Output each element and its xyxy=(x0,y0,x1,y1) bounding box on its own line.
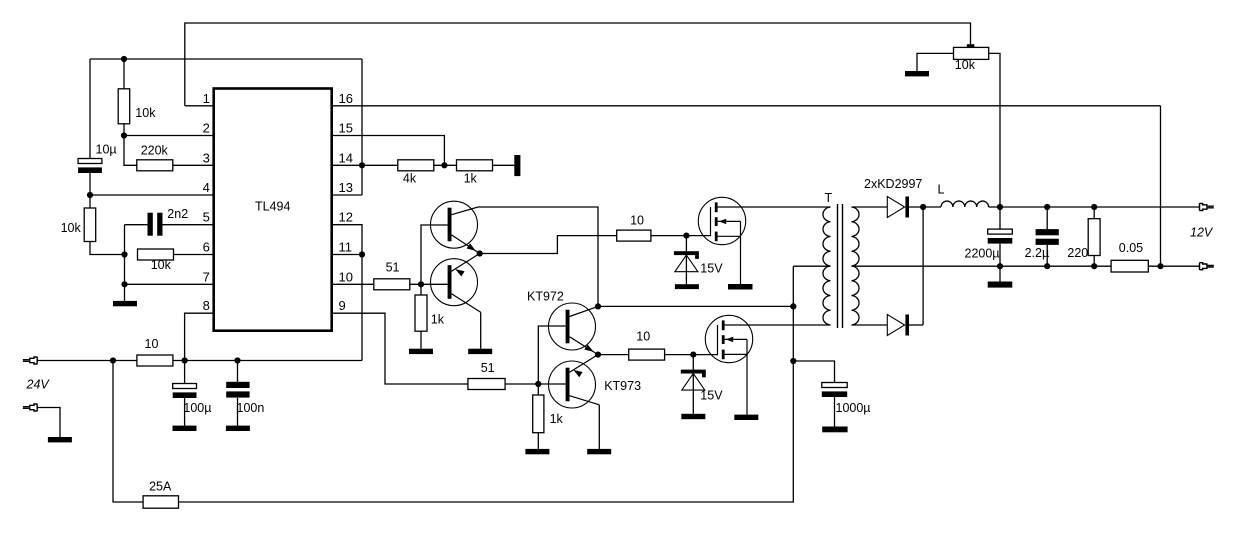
junction dot R15/feedback xyxy=(1157,263,1163,269)
wire R7 to terminator xyxy=(493,164,515,166)
ground C6 xyxy=(988,282,1013,288)
wire 24V rail xyxy=(37,360,137,362)
svg-text:2.2µ: 2.2µ xyxy=(1025,246,1050,260)
wire C5 branch xyxy=(793,361,834,383)
ground R11 xyxy=(525,449,549,454)
wire M2 drain to primary bottom xyxy=(725,324,831,326)
svg-text:1k: 1k xyxy=(464,172,478,186)
junction dot 24V/fuse branch xyxy=(110,357,116,363)
wire node A to R9 xyxy=(420,284,422,295)
inductor L xyxy=(941,201,989,207)
svg-text:0.05: 0.05 xyxy=(1119,241,1143,255)
ground M2 source xyxy=(734,415,758,420)
svg-text:12: 12 xyxy=(339,210,353,225)
wire pin14 xyxy=(332,164,398,166)
wire left branch down to C1 xyxy=(89,59,91,159)
svg-text:10: 10 xyxy=(145,337,159,351)
svg-text:15V: 15V xyxy=(700,389,723,403)
svg-text:14: 14 xyxy=(339,150,353,165)
svg-text:25A: 25A xyxy=(149,480,172,494)
svg-text:KT972: KT972 xyxy=(527,290,564,304)
wire pin4 node to R3 xyxy=(89,195,91,208)
output terminal 12V plus xyxy=(1200,203,1214,210)
junction dot Q3/Q4 emitters xyxy=(595,352,601,358)
junction dot tap rail / drivers xyxy=(790,303,796,309)
wire R16 right down to +12V rail xyxy=(989,53,1000,207)
wire M1 drain to primary top xyxy=(718,206,831,208)
wire pin16 feedback xyxy=(332,105,1161,107)
ground R16 xyxy=(905,71,929,76)
resistor R2 220k xyxy=(137,160,173,171)
junction dot pin4 node xyxy=(87,192,93,198)
wire L to +12V node xyxy=(989,206,1000,208)
junction dot node E pin6 xyxy=(121,251,127,257)
wire C3 bottom xyxy=(184,398,186,426)
ground 24V minus xyxy=(48,437,72,442)
wire R5 to pin12 branch xyxy=(173,360,362,362)
transistor Q2 PNP driver xyxy=(431,254,481,313)
svg-text:10k: 10k xyxy=(955,58,976,72)
wire R8 to node A / Q2 base xyxy=(409,283,447,285)
svg-text:10: 10 xyxy=(339,269,353,284)
resistor R4 10k xyxy=(138,249,174,260)
ground Z2 xyxy=(681,414,705,419)
svg-text:T: T xyxy=(825,191,833,205)
wire C5 bottom xyxy=(834,397,836,427)
wire R13 to gate node xyxy=(665,354,694,356)
wire R1 top xyxy=(123,59,125,89)
resistor R7 1k xyxy=(457,160,493,171)
resistor R3 10k xyxy=(84,208,96,242)
capacitor C7 2.2u xyxy=(1036,229,1059,245)
ground M1 source xyxy=(728,284,753,290)
wire node E to C2 xyxy=(125,224,148,226)
wire pin1 up and top feedback to potentiometer wiper xyxy=(185,23,971,106)
svg-text:10: 10 xyxy=(630,213,644,227)
resistor R11 1k xyxy=(533,395,544,433)
junction dot M2 gate node xyxy=(690,352,696,358)
ground R9 xyxy=(409,349,433,354)
junction dot 0V/C6 xyxy=(997,263,1003,269)
wire cathode bus vertical xyxy=(922,207,924,325)
wire C7 bottom xyxy=(1046,245,1048,266)
svg-text:3: 3 xyxy=(203,150,210,165)
resistor R5 10 xyxy=(137,355,173,366)
resistor R13 10 xyxy=(629,349,665,360)
wire R10 to node B / Q4 base xyxy=(505,383,565,385)
resistor R8 51 xyxy=(374,279,410,290)
wire upper bus y59 xyxy=(90,58,362,60)
junction dot D1/D2 cathodes xyxy=(920,204,926,210)
svg-text:2200µ: 2200µ xyxy=(965,247,1000,261)
svg-text:4: 4 xyxy=(203,180,210,195)
wire D1 to L node xyxy=(909,206,941,208)
svg-text:12V: 12V xyxy=(1190,226,1214,240)
wire emitters to R12 xyxy=(480,236,617,254)
transformer T core xyxy=(838,204,843,328)
wire pin7 xyxy=(125,283,214,285)
zener diode Z1 15V xyxy=(674,251,699,272)
ground Z1 xyxy=(675,284,699,289)
svg-text:5: 5 xyxy=(203,210,210,225)
junction dot pin2 node xyxy=(121,132,127,138)
svg-text:220: 220 xyxy=(1067,246,1088,260)
diode D2 KD2997 xyxy=(887,315,909,336)
junction dot node B xyxy=(535,381,541,387)
wire pin11 xyxy=(332,254,362,256)
capacitor C1 10u xyxy=(78,159,102,174)
wire C1 to pin4 node xyxy=(89,173,91,195)
wire secondary bottom to D2 xyxy=(852,324,888,326)
wire 0V rail from secondary tap xyxy=(852,265,1112,267)
svg-text:9: 9 xyxy=(339,298,346,313)
ground Q2 xyxy=(468,349,492,354)
ground Q4 xyxy=(587,449,611,454)
wire pin2 node down to R2 xyxy=(124,136,137,166)
resistor R15 0.05 xyxy=(1111,260,1148,272)
wire R12 to gate node xyxy=(651,235,687,237)
svg-text:1: 1 xyxy=(203,91,210,106)
wire R3 bottom to node E xyxy=(90,242,125,255)
junction dot Q3 collector node xyxy=(595,303,601,309)
wire R2 to pin3 xyxy=(173,164,214,166)
svg-text:10k: 10k xyxy=(61,221,82,235)
resistor R9 1k xyxy=(415,295,427,331)
svg-text:10k: 10k xyxy=(135,106,156,120)
wire node A to Q1 base xyxy=(421,225,448,284)
output terminal 12V minus xyxy=(1200,263,1214,270)
svg-text:11: 11 xyxy=(339,240,353,255)
capacitor C2 2n2 xyxy=(148,213,163,236)
svg-text:2n2: 2n2 xyxy=(167,207,188,221)
wire R14 bottom xyxy=(1093,256,1095,267)
wire Q3 collector node to transformer tap rail xyxy=(598,305,793,307)
wire Q4 collector to ground xyxy=(598,405,600,449)
ground C4 xyxy=(226,426,250,431)
svg-text:7: 7 xyxy=(203,269,210,284)
junction dot pin7 node xyxy=(121,281,127,287)
capacitor C5 1000u xyxy=(822,383,847,398)
wire R16 left to ground xyxy=(917,53,954,71)
fuse F1 25A xyxy=(143,496,178,508)
svg-text:1k: 1k xyxy=(550,412,564,426)
svg-text:24V: 24V xyxy=(26,377,51,391)
junction dot +12V/C6 xyxy=(997,204,1003,210)
svg-text:10µ: 10µ xyxy=(96,143,117,157)
wire pin1 to U1 xyxy=(185,105,214,107)
svg-text:6: 6 xyxy=(203,240,210,255)
wire node B to Q3 base xyxy=(538,326,565,384)
svg-text:2xKD2997: 2xKD2997 xyxy=(864,177,922,191)
transformer T primary winding xyxy=(823,207,831,325)
svg-text:15: 15 xyxy=(339,121,353,136)
svg-text:51: 51 xyxy=(386,261,400,275)
wire Z2 top xyxy=(692,355,694,414)
wire C6 top xyxy=(999,207,1001,229)
svg-text:10: 10 xyxy=(636,329,650,343)
wire R11 to ground xyxy=(537,433,539,449)
wire vertical bus to pin13 xyxy=(361,59,363,195)
blocked-wire terminator xyxy=(514,155,520,176)
wire pin9 down xyxy=(332,313,468,384)
svg-text:100n: 100n xyxy=(237,401,265,415)
resistor R12 10 xyxy=(617,230,651,241)
wire R9 to ground xyxy=(420,331,422,349)
junction dot node A xyxy=(418,281,424,287)
transformer T secondary winding xyxy=(852,207,860,325)
svg-text:L: L xyxy=(938,183,945,197)
resistor R14 220 xyxy=(1088,219,1100,256)
wire pin4 xyxy=(90,194,214,196)
potentiometer R16 10k xyxy=(954,44,989,59)
svg-text:TL494: TL494 xyxy=(255,200,290,214)
wire C4 top xyxy=(237,361,239,382)
junction dot 0V/C7 xyxy=(1044,263,1050,269)
wire pin15 jog xyxy=(332,136,445,166)
junction dot pin11/vertical xyxy=(359,251,365,257)
diode D1 KD2997 xyxy=(887,197,909,218)
transistor Q3 KT972 NPN xyxy=(549,303,599,355)
svg-text:15V: 15V xyxy=(700,261,723,275)
svg-text:10k: 10k xyxy=(151,258,172,272)
wire node E vertical xyxy=(124,225,126,301)
svg-text:220k: 220k xyxy=(141,144,169,158)
wire +12V rail xyxy=(1000,206,1200,208)
zener diode Z2 15V xyxy=(681,370,706,391)
wire emitters to R13 xyxy=(598,354,629,356)
junction dot M1 gate node xyxy=(683,233,689,239)
wire node B to R11 xyxy=(537,384,539,395)
svg-text:2: 2 xyxy=(203,121,210,136)
wire pin12 down to rail xyxy=(332,225,362,361)
svg-text:13: 13 xyxy=(339,180,353,195)
wire C3 top xyxy=(184,361,186,384)
wire R4 to pin6 xyxy=(174,254,214,256)
U1 pin numbers 1-8 xyxy=(203,91,210,313)
transistor Q1 NPN driver xyxy=(431,201,480,253)
ground C5 xyxy=(822,427,847,433)
wire R15 to output xyxy=(1148,265,1199,267)
ground bias network xyxy=(113,301,137,306)
svg-text:4k: 4k xyxy=(403,172,417,186)
wire pin2 xyxy=(124,135,214,137)
resistor R6 4k xyxy=(398,160,434,171)
svg-text:100µ: 100µ xyxy=(183,401,211,415)
U1 pin numbers 16-9 xyxy=(339,91,353,313)
wire pin13 xyxy=(332,194,362,196)
junction dot +12V/C7 xyxy=(1044,204,1050,210)
capacitor C3 100u xyxy=(173,384,197,399)
junction dot Q1/Q2 emitters xyxy=(477,250,483,256)
svg-text:1000µ: 1000µ xyxy=(836,401,871,415)
svg-text:KT973: KT973 xyxy=(604,379,641,393)
junction dot R6/R7/pin15 xyxy=(441,162,447,168)
wire R6 to R7 xyxy=(434,164,457,166)
wire 24V minus to ground xyxy=(37,408,60,438)
wire R14 top xyxy=(1093,207,1095,219)
ground C3 xyxy=(173,426,197,431)
input terminal 24V plus xyxy=(23,357,37,364)
op-amp/PWM controller U1 TL494 body xyxy=(214,89,332,331)
junction dot +12V/R14 xyxy=(1091,204,1097,210)
junction dot 0V/R14 xyxy=(1091,263,1097,269)
wire primary center tap xyxy=(793,265,830,267)
junction dot bus/R1 xyxy=(121,56,127,62)
junction dot pin8/rail xyxy=(182,357,188,363)
wire Z1 top xyxy=(685,236,687,285)
wire C6 bottom xyxy=(999,244,1001,282)
junction dot C4 branch xyxy=(234,357,240,363)
transistor M2 lower MOSFET xyxy=(693,315,752,414)
resistor R10 51 xyxy=(468,379,505,390)
svg-text:8: 8 xyxy=(203,298,210,313)
wire secondary top to D1 xyxy=(852,206,888,208)
junction dot pin14/vertical xyxy=(359,162,365,168)
transistor Q4 KT973 PNP xyxy=(549,355,600,408)
wire C4 bottom xyxy=(237,398,239,426)
wire bottom rail through fuse xyxy=(113,266,793,502)
junction dot tap rail / C5 xyxy=(790,358,796,364)
svg-text:16: 16 xyxy=(339,91,353,106)
capacitor C6 2200u xyxy=(988,229,1013,244)
wire feedback pin16 vertical xyxy=(1160,106,1162,266)
capacitor C4 100n xyxy=(226,382,249,398)
transistor M1 upper MOSFET xyxy=(686,197,745,284)
wire pin10 xyxy=(332,283,374,285)
svg-text:51: 51 xyxy=(481,361,495,375)
wire Q1 collector to Q3 collector xyxy=(478,207,598,306)
wire D2 to cathode bus xyxy=(909,324,923,326)
wire pin8 down to 24V rail xyxy=(185,313,214,360)
resistor R1 10k xyxy=(118,89,130,124)
input terminal 24V minus xyxy=(23,404,37,411)
wire R1 bottom to pin2 node xyxy=(123,124,125,136)
wire C7 top xyxy=(1046,207,1048,229)
wire Q2 collector to ground xyxy=(480,312,482,348)
wire C2 to pin5 xyxy=(163,224,214,226)
svg-text:1k: 1k xyxy=(431,313,445,327)
